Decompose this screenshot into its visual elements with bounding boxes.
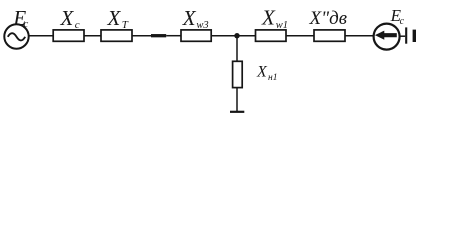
svg-text:X: X: [261, 6, 276, 30]
svg-text:X: X: [107, 6, 122, 30]
label Xт: [107, 6, 129, 31]
AC source G1 (system EMF): [4, 24, 28, 48]
wire: [286, 35, 314, 37]
svg-text:X: X: [256, 64, 268, 81]
wire: [29, 35, 54, 37]
svg-text:T: T: [122, 19, 129, 31]
label Xн1: [256, 64, 277, 83]
svg-text:X"дв: X"дв: [309, 8, 347, 29]
terminal bar (short electrode): [413, 30, 416, 42]
terminal bar (long electrode): [405, 27, 407, 43]
motor source M1 (EMF source with arrow): [374, 24, 400, 50]
label X″дв: [309, 8, 347, 29]
node A (junction): [234, 33, 239, 38]
label Xw1: [261, 6, 288, 31]
resistor Xc (system reactance): [53, 30, 84, 41]
resistor Xт (transformer reactance): [101, 30, 132, 41]
label Xw3: [182, 6, 209, 31]
wire: [166, 35, 181, 37]
resistor X″дв (motor subtransient reactance): [314, 30, 345, 41]
resistor Xw3 (line W3 reactance): [181, 30, 211, 41]
wire: [132, 35, 151, 37]
wire: [345, 35, 374, 37]
wire: [400, 35, 406, 37]
resistor Xн1 (load branch reactance): [233, 61, 243, 87]
label Ec (system EMF): [12, 6, 28, 30]
resistor Xw1 (line W1 reactance): [256, 30, 287, 41]
label E (motor EMF): [390, 6, 405, 27]
svg-text:c: c: [23, 18, 28, 30]
svg-text:X: X: [182, 6, 197, 30]
svg-text:c: c: [400, 16, 405, 27]
ground: [230, 111, 244, 113]
svg-text:w3: w3: [196, 20, 208, 31]
wire: [211, 35, 255, 37]
wire: [236, 88, 238, 112]
svg-text:н1: н1: [268, 73, 277, 83]
busbar segment: [151, 34, 166, 37]
svg-text:w1: w1: [276, 20, 288, 31]
label Xc: [60, 6, 80, 31]
svg-text:c: c: [75, 19, 80, 31]
wire: [84, 35, 101, 37]
svg-text:X: X: [60, 6, 75, 30]
wire: [236, 36, 238, 62]
